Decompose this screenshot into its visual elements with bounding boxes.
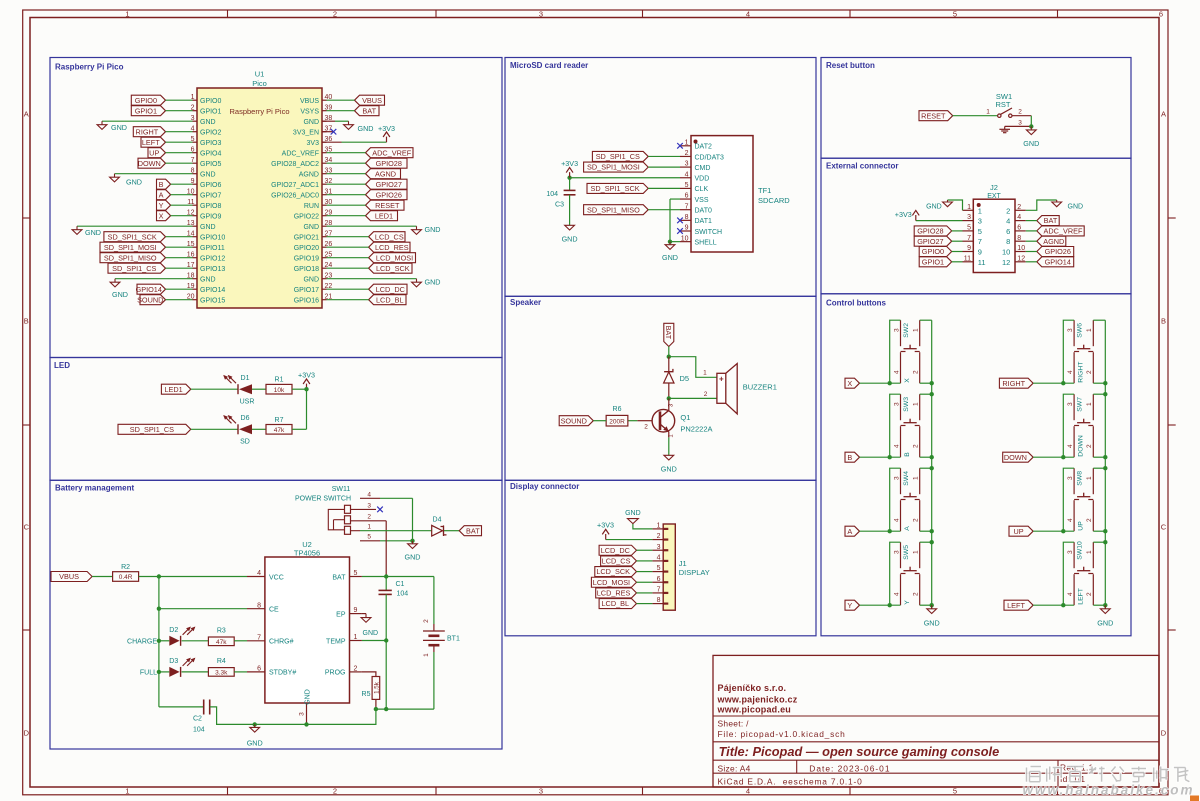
wire xyxy=(860,530,901,532)
svg-text:BAT: BAT xyxy=(362,106,376,115)
svg-text:7: 7 xyxy=(257,634,261,641)
svg-text:SD_SPI1_CS: SD_SPI1_CS xyxy=(130,425,174,434)
svg-text:Control buttons: Control buttons xyxy=(826,299,887,308)
svg-text:3: 3 xyxy=(893,328,900,332)
junction xyxy=(384,707,388,711)
svg-text:SD_SPI1_MOSI: SD_SPI1_MOSI xyxy=(104,243,157,252)
U1 pin 6 GPIO4 xyxy=(191,146,222,157)
svg-text:GND: GND xyxy=(200,171,216,178)
svg-text:10k: 10k xyxy=(274,387,285,394)
svg-text:1: 1 xyxy=(1086,402,1093,406)
switch SW11 POWER SWITCH xyxy=(295,486,386,541)
power GND xyxy=(110,279,128,299)
svg-text:47k: 47k xyxy=(274,427,285,434)
svg-text:3: 3 xyxy=(657,544,661,551)
power GND xyxy=(1052,200,1083,211)
global label AGND xyxy=(1037,236,1066,246)
no-connect U1 pin37 xyxy=(322,131,334,133)
svg-text:GPIO26: GPIO26 xyxy=(1045,247,1071,256)
svg-text:GPIO27_ADC1: GPIO27_ADC1 xyxy=(271,182,319,189)
svg-text:D5: D5 xyxy=(680,374,690,383)
junction xyxy=(888,455,892,459)
svg-text:Pico: Pico xyxy=(252,79,267,88)
wire xyxy=(1093,382,1105,384)
junction xyxy=(1061,603,1065,607)
wire xyxy=(292,388,307,390)
wire xyxy=(1033,456,1074,458)
global label UP xyxy=(1009,526,1033,536)
U1 pin 7 GPIO5 xyxy=(191,157,222,168)
svg-text:X: X xyxy=(847,379,852,388)
svg-text:5: 5 xyxy=(657,565,661,572)
wire xyxy=(920,319,932,321)
svg-text:4: 4 xyxy=(257,570,261,577)
svg-text:2: 2 xyxy=(644,423,648,430)
svg-text:4: 4 xyxy=(1067,444,1074,448)
U1 pin 35 ADC_VREF xyxy=(282,146,333,157)
svg-text:2: 2 xyxy=(333,787,337,796)
power GND xyxy=(72,226,101,237)
watermark xyxy=(1023,767,1195,798)
svg-text:CHARGE: CHARGE xyxy=(127,638,157,645)
global label LCD_SCK xyxy=(369,263,412,273)
svg-text:CD/DAT3: CD/DAT3 xyxy=(695,154,725,161)
U1 pin 3 GND xyxy=(191,115,216,126)
junction xyxy=(374,707,378,711)
section box Display connector xyxy=(505,480,816,636)
wire xyxy=(1063,542,1074,605)
wire xyxy=(159,640,169,642)
junction xyxy=(668,239,672,243)
J2 pin 9 xyxy=(963,245,982,256)
svg-text:GPIO0: GPIO0 xyxy=(135,96,157,105)
global label LCD_BL xyxy=(369,295,406,305)
svg-text:LCD_SCK: LCD_SCK xyxy=(596,567,630,576)
mcu U1 Pico body xyxy=(197,70,322,309)
U1 pin 11 GPIO8 xyxy=(187,199,221,210)
svg-text:3: 3 xyxy=(299,712,306,716)
svg-text:VDD: VDD xyxy=(695,176,710,183)
svg-text:R5: R5 xyxy=(362,691,371,698)
power GND xyxy=(926,200,952,211)
svg-text:GND: GND xyxy=(358,124,374,133)
wire xyxy=(166,162,193,164)
wire xyxy=(444,530,459,532)
svg-text:7: 7 xyxy=(967,235,971,242)
svg-text:4: 4 xyxy=(893,518,900,522)
svg-text:GND: GND xyxy=(200,119,216,126)
svg-text:VBUS: VBUS xyxy=(362,96,382,105)
wire xyxy=(327,215,366,217)
svg-text:104: 104 xyxy=(193,727,205,734)
wire xyxy=(102,120,193,122)
global label SD_SPI1_CS xyxy=(118,424,191,434)
U1 pin 30 RUN xyxy=(304,199,333,210)
svg-text:GPIO0: GPIO0 xyxy=(200,98,222,105)
svg-text:UP: UP xyxy=(1013,527,1023,536)
U1 pin 13 GND xyxy=(187,220,216,231)
svg-text:3: 3 xyxy=(685,161,689,168)
svg-text:1: 1 xyxy=(978,206,982,215)
junction xyxy=(888,603,892,607)
svg-text:X: X xyxy=(159,211,164,220)
switch SW2 X xyxy=(893,320,919,383)
svg-text:GPIO22: GPIO22 xyxy=(294,213,319,220)
wire xyxy=(77,225,193,227)
svg-text:GPIO27: GPIO27 xyxy=(376,180,402,189)
svg-text:Date: 2023-06-01: Date: 2023-06-01 xyxy=(809,763,890,773)
svg-text:B: B xyxy=(1161,317,1166,326)
svg-text:GND: GND xyxy=(200,276,216,283)
svg-text:GPIO5: GPIO5 xyxy=(200,161,222,168)
svg-text:D: D xyxy=(24,729,30,738)
wire xyxy=(890,394,901,457)
global label GPIO14 xyxy=(136,284,166,294)
svg-text:GPIO26: GPIO26 xyxy=(376,190,402,199)
wire xyxy=(1033,530,1074,532)
global label AGND xyxy=(366,169,401,179)
global label BAT xyxy=(1037,216,1059,226)
svg-text:R1: R1 xyxy=(275,377,284,384)
svg-text:4: 4 xyxy=(685,171,689,178)
no-connect SW11 pin3 xyxy=(377,507,383,513)
svg-text:BUZZER1: BUZZER1 xyxy=(743,383,777,392)
no-connect TF1 pin 1 xyxy=(677,143,683,149)
svg-text:GPIO28_ADC2: GPIO28_ADC2 xyxy=(271,161,319,168)
svg-text:10: 10 xyxy=(1002,248,1010,257)
J2 pin 3 xyxy=(963,214,982,225)
svg-text:GND: GND xyxy=(1023,139,1039,148)
U1 pin 28 GND xyxy=(303,220,332,231)
wire xyxy=(327,288,369,290)
capacitor C2 xyxy=(193,700,210,734)
J2 pin 1 xyxy=(963,204,982,215)
svg-text:6: 6 xyxy=(257,666,261,673)
global label SD_SPI1_MISO xyxy=(584,205,649,215)
svg-text:+3V3: +3V3 xyxy=(597,520,614,529)
battery BT1 xyxy=(423,619,460,657)
svg-text:8: 8 xyxy=(685,214,689,221)
global label B xyxy=(157,179,171,189)
U1 pin 5 GPIO3 xyxy=(191,136,222,147)
svg-text:3: 3 xyxy=(1018,119,1022,126)
svg-text:UP: UP xyxy=(149,148,159,157)
wire xyxy=(166,299,193,301)
svg-text:1: 1 xyxy=(685,139,689,146)
U2 pin 3 GND xyxy=(299,689,312,724)
svg-text:1: 1 xyxy=(125,787,129,796)
svg-text:1: 1 xyxy=(1086,550,1093,554)
svg-text:4: 4 xyxy=(367,491,371,498)
svg-text:3: 3 xyxy=(1067,328,1074,332)
svg-text:Y: Y xyxy=(847,601,852,610)
global label GPIO1 xyxy=(919,257,952,267)
global label SD_SPI1_SCK xyxy=(587,183,648,193)
svg-text:2: 2 xyxy=(354,666,358,673)
svg-text:4: 4 xyxy=(893,370,900,374)
svg-text:3: 3 xyxy=(893,476,900,480)
svg-text:8: 8 xyxy=(657,597,661,604)
section box Battery management xyxy=(50,480,502,749)
TF1 pin 3 CMD xyxy=(680,161,710,172)
svg-text:LCD_BL: LCD_BL xyxy=(376,295,404,304)
svg-text:DAT2: DAT2 xyxy=(695,144,712,151)
U1 pin 18 GND xyxy=(187,272,216,283)
svg-text:4: 4 xyxy=(1017,214,1021,221)
svg-text:A: A xyxy=(159,190,164,199)
power +3V3 xyxy=(561,159,578,178)
svg-text:2: 2 xyxy=(1006,206,1010,215)
wire xyxy=(115,173,193,175)
svg-text:SW3: SW3 xyxy=(903,397,910,412)
svg-text:LCD_MOSI: LCD_MOSI xyxy=(593,578,630,587)
svg-text:LCD_MOSI: LCD_MOSI xyxy=(376,253,413,262)
global label Y xyxy=(157,200,171,210)
wire xyxy=(327,299,369,301)
wire xyxy=(637,603,653,605)
svg-text:GPIO1: GPIO1 xyxy=(200,108,222,115)
svg-text:BAT: BAT xyxy=(466,526,480,535)
svg-text:2: 2 xyxy=(367,514,371,521)
junction xyxy=(567,176,571,180)
wire xyxy=(637,549,653,551)
svg-text:SD_SPI1_CS: SD_SPI1_CS xyxy=(112,264,156,273)
svg-text:GPIO21: GPIO21 xyxy=(294,234,319,241)
global label Y xyxy=(845,600,860,610)
global label ADC_VREF xyxy=(366,148,414,158)
J2 pin 4 xyxy=(1006,214,1026,225)
svg-text:GND: GND xyxy=(247,739,263,748)
svg-text:C: C xyxy=(1161,523,1167,532)
svg-text:2: 2 xyxy=(333,9,337,18)
power +3V3 xyxy=(298,371,315,392)
wire xyxy=(648,187,680,189)
wire xyxy=(920,541,932,543)
junction xyxy=(157,670,161,674)
junction xyxy=(1061,529,1065,533)
wire xyxy=(1030,116,1032,127)
svg-text:GND: GND xyxy=(85,228,101,237)
svg-text:GND: GND xyxy=(1097,619,1113,628)
svg-text:2: 2 xyxy=(913,592,920,596)
U1 pin 34 GPIO28_ADC2 xyxy=(271,157,332,168)
junction xyxy=(1103,529,1107,533)
svg-text:+3V3: +3V3 xyxy=(378,124,395,133)
U1 pin 9 GPIO6 xyxy=(191,178,222,189)
wire xyxy=(166,131,193,133)
svg-text:11: 11 xyxy=(964,255,971,262)
power GND xyxy=(405,541,421,562)
wire xyxy=(159,608,247,610)
svg-text:12: 12 xyxy=(1002,258,1010,267)
global label LED1 xyxy=(161,384,190,394)
svg-text:A: A xyxy=(904,526,911,531)
svg-text:R3: R3 xyxy=(217,627,226,634)
resistor R6 xyxy=(606,406,628,426)
wire xyxy=(860,604,901,606)
svg-text:2: 2 xyxy=(913,444,920,448)
svg-text:B: B xyxy=(904,452,911,457)
power GND xyxy=(110,174,142,187)
global label RESET xyxy=(919,111,953,121)
U1 pin 38 GND xyxy=(303,115,332,126)
svg-text:ADC_VREF: ADC_VREF xyxy=(282,150,319,157)
wire xyxy=(569,195,571,226)
junction xyxy=(157,639,161,643)
wire xyxy=(385,521,387,577)
svg-text:GPIO7: GPIO7 xyxy=(200,192,222,199)
wire xyxy=(648,166,680,168)
wire xyxy=(1104,320,1106,609)
svg-text:D3: D3 xyxy=(169,658,178,665)
global label LEFT xyxy=(141,137,166,147)
svg-text:GPIO8: GPIO8 xyxy=(200,203,222,210)
svg-text:LED: LED xyxy=(54,361,70,370)
junction xyxy=(1103,540,1107,544)
U2 pin 8 CE xyxy=(247,602,279,613)
wire xyxy=(166,246,193,248)
U1 pin 21 GPIO16 xyxy=(294,293,333,304)
TF1 pin 2 CD/DAT3 xyxy=(680,150,724,161)
svg-text:SDCARD: SDCARD xyxy=(758,196,790,205)
svg-text:6: 6 xyxy=(685,193,689,200)
svg-text:1: 1 xyxy=(986,108,990,115)
global label X xyxy=(845,378,860,388)
global label GPIO0 xyxy=(919,247,952,257)
svg-text:RIGHT: RIGHT xyxy=(136,127,159,136)
svg-text:GPIO16: GPIO16 xyxy=(294,297,319,304)
global label ADC_VREF xyxy=(1037,226,1084,236)
svg-text:SW11: SW11 xyxy=(332,486,351,493)
svg-text:GPIO13: GPIO13 xyxy=(200,266,225,273)
sdcard TF1 body xyxy=(691,136,790,252)
wire xyxy=(362,640,386,642)
junction xyxy=(253,722,257,726)
junction xyxy=(1103,381,1107,385)
wire xyxy=(948,200,963,210)
svg-text:3: 3 xyxy=(1067,402,1074,406)
global label GPIO26 xyxy=(366,190,408,200)
svg-text:D: D xyxy=(1161,729,1167,738)
wire xyxy=(327,194,366,196)
svg-text:Title: Picopad — open source g: Title: Picopad — open source gaming cons… xyxy=(719,744,1000,759)
svg-text:5: 5 xyxy=(685,182,689,189)
wire xyxy=(139,576,247,578)
svg-text:6: 6 xyxy=(1017,225,1021,232)
LED D2 xyxy=(169,627,195,646)
wire xyxy=(171,215,193,217)
svg-text:3: 3 xyxy=(539,787,543,796)
svg-text:SD_SPI1_SCK: SD_SPI1_SCK xyxy=(591,184,640,193)
svg-text:LEFT: LEFT xyxy=(142,138,160,147)
wire xyxy=(385,594,387,709)
switch SW8 UP xyxy=(1067,468,1093,531)
svg-text:9: 9 xyxy=(967,245,971,252)
svg-text:D6: D6 xyxy=(241,415,250,422)
J2 pin 7 xyxy=(963,235,982,246)
wire xyxy=(593,420,606,422)
global label GPIO28 xyxy=(914,226,952,236)
wire xyxy=(569,178,571,191)
wire xyxy=(668,437,670,455)
svg-text:SOUND: SOUND xyxy=(137,295,163,304)
global label VBUS xyxy=(355,95,385,105)
U1 pin 32 GPIO27_ADC1 xyxy=(271,178,332,189)
wire xyxy=(916,220,963,222)
U1 pin 27 GPIO21 xyxy=(294,230,333,241)
J1 pin 7 xyxy=(652,587,668,594)
svg-text:Battery management: Battery management xyxy=(55,484,134,493)
svg-text:Reset button: Reset button xyxy=(826,61,875,70)
wire xyxy=(385,577,387,591)
svg-text:RIGHT: RIGHT xyxy=(1078,362,1085,383)
U1 pin 12 GPIO9 xyxy=(187,209,222,220)
junction xyxy=(384,638,388,642)
wire xyxy=(952,261,963,263)
svg-text:6: 6 xyxy=(1006,227,1010,236)
svg-text:VSYS: VSYS xyxy=(300,108,319,115)
wire xyxy=(327,152,366,154)
power GND xyxy=(661,455,677,473)
svg-text:SWITCH: SWITCH xyxy=(695,229,723,236)
svg-text:1: 1 xyxy=(1086,476,1093,480)
svg-text:2: 2 xyxy=(1086,370,1093,374)
global label LCD_SCK xyxy=(595,567,637,577)
U1 pin 20 GPIO15 xyxy=(187,293,226,304)
svg-text:1: 1 xyxy=(125,9,129,18)
global label SD_SPI1_MISO xyxy=(100,253,166,263)
svg-text:A: A xyxy=(24,110,29,119)
wire xyxy=(92,576,112,578)
power GND xyxy=(662,242,678,262)
section box Speaker xyxy=(505,296,816,480)
section box MicroSD card reader xyxy=(505,58,816,297)
svg-text:3: 3 xyxy=(1067,476,1074,480)
power GND xyxy=(1023,126,1039,148)
wire xyxy=(327,278,417,280)
svg-text:KiCad E.D.A. eeschema 7.0.1-0: KiCad E.D.A. eeschema 7.0.1-0 xyxy=(718,776,863,786)
wire xyxy=(306,389,308,429)
junction xyxy=(930,455,934,459)
svg-text:2: 2 xyxy=(1086,518,1093,522)
svg-text:200R: 200R xyxy=(609,418,625,425)
wire xyxy=(327,99,355,101)
global label BAT xyxy=(664,323,674,346)
svg-text:ADC_VREF: ADC_VREF xyxy=(1044,227,1083,236)
svg-text:1: 1 xyxy=(423,653,430,657)
global label SOUND xyxy=(559,416,593,426)
resistor R5 xyxy=(362,677,381,700)
switch SW6 RIGHT xyxy=(1067,320,1093,383)
J1 pin 5 xyxy=(652,565,668,572)
svg-text:4: 4 xyxy=(893,592,900,596)
wire xyxy=(1026,261,1037,263)
U1 pin 24 GPIO18 xyxy=(294,262,333,273)
wire xyxy=(953,115,998,117)
wire xyxy=(920,467,932,469)
svg-text:LED1: LED1 xyxy=(375,211,393,220)
svg-text:GPIO12: GPIO12 xyxy=(200,255,225,262)
wire xyxy=(362,672,376,677)
wire xyxy=(327,173,366,175)
svg-text:GPIO28: GPIO28 xyxy=(917,227,943,236)
svg-text:J2: J2 xyxy=(990,183,998,192)
U1 pin 36 3V3 xyxy=(307,136,333,147)
global label SD_SPI1_MOSI xyxy=(100,242,166,252)
wire xyxy=(890,320,901,383)
svg-text:LEFT: LEFT xyxy=(1007,601,1025,610)
svg-text:8: 8 xyxy=(1006,237,1010,246)
